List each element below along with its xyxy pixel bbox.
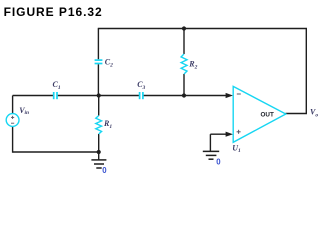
wire R2 bottom [183, 74, 185, 96]
svg-text:U1: U1 [232, 143, 241, 154]
junction bottom node [97, 150, 101, 154]
arrowhead into inverting input [226, 93, 233, 98]
wire left above source [12, 96, 14, 115]
svg-text:R2: R2 [188, 60, 197, 71]
op-amp U1 [233, 86, 286, 142]
capacitor C1 [54, 92, 57, 99]
junction R2 bottom node [182, 93, 186, 97]
svg-text:C2: C2 [105, 58, 113, 69]
ground 0 at U1 noninverting input [203, 151, 219, 159]
resistor R2 [181, 54, 187, 74]
svg-text:Vin: Vin [19, 106, 29, 116]
svg-text:0: 0 [102, 166, 107, 175]
ground 0 under R1 [91, 160, 106, 168]
voltage source Vin [6, 114, 19, 127]
wire op-amp output [286, 113, 308, 115]
ground stem under R1 [98, 152, 100, 160]
svg-text:R1: R1 [103, 119, 112, 130]
wire C2 branch top [97, 29, 99, 60]
wire ground drop U1 [209, 134, 211, 151]
capacitor C2 [95, 60, 103, 63]
wire C1 to C3 [58, 95, 139, 97]
wire R2 top [183, 29, 185, 55]
wire main left (Vin to C1) [13, 95, 53, 97]
wire right vertical [305, 29, 307, 114]
wire bottom [13, 151, 99, 153]
junction node A (C1/C2/R1) [97, 93, 101, 97]
arrowhead into noninverting input [226, 132, 233, 137]
svg-text:OUT: OUT [261, 112, 274, 119]
op-amp plus pin mark [237, 130, 241, 134]
wire top feedback [98, 28, 307, 30]
wire C2 to node A [97, 64, 99, 95]
svg-text:0: 0 [216, 158, 221, 167]
svg-text:C1: C1 [53, 80, 61, 91]
svg-text:Vo: Vo [310, 108, 318, 119]
svg-text:C3: C3 [137, 80, 145, 91]
wire left below source [12, 126, 14, 152]
op-amp minus pin mark [237, 93, 241, 95]
junction R2 top node [182, 26, 186, 30]
wire R1 bottom [98, 134, 100, 152]
wire node A to R1 [98, 96, 100, 116]
resistor R1 [96, 116, 102, 134]
figure title [4, 6, 103, 18]
wire noninverting input [210, 133, 227, 135]
wire C3 to op-amp inverting input [143, 95, 227, 97]
capacitor C3 [140, 92, 143, 99]
